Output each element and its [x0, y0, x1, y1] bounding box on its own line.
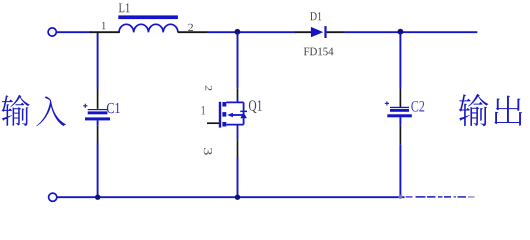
transistor Q1 body diode branch: [243, 102, 245, 124]
capacitor C2 positive plate: [390, 107, 409, 112]
diode D1 cathode pin lead: [327, 31, 344, 33]
node output junction dot: [398, 29, 404, 35]
capacitor C1 top pin lead: [97, 89, 99, 109]
capacitor C2 plus mark: [385, 101, 389, 105]
capacitor C1 label: [107, 103, 120, 113]
transistor Q1 body lead with arrow: [227, 113, 243, 118]
transistor Q1 pin number 3: [204, 148, 212, 155]
inductor L1 coil: [119, 24, 178, 32]
wire C1 branch bottom: [97, 143, 99, 197]
wire output node down: [399, 33, 401, 89]
wire bottom rail dashed faded segment: [406, 196, 475, 198]
transistor Q1 pin number 2: [205, 86, 212, 91]
wire drain node down: [237, 33, 239, 88]
capacitor C2 bottom stub: [399, 117, 401, 125]
node drain junction dot: [235, 29, 241, 35]
diode D1 label: [310, 12, 321, 20]
input terminal top-left: [48, 28, 56, 36]
inductor L1 core bar: [118, 15, 178, 19]
capacitor C1 bottom stub: [97, 120, 99, 125]
capacitor C1 plus mark: [83, 104, 87, 108]
capacitor C2 top pin lead: [399, 89, 401, 108]
inductor L1 label: [119, 3, 130, 12]
transistor Q1 label: [249, 100, 262, 113]
capacitor C1 bottom pin lead: [97, 126, 99, 143]
inductor L1 pin number 1: [102, 22, 106, 29]
node bottom C1 junction dot: [95, 195, 100, 200]
wire L1 pin2 to drain node: [207, 31, 295, 33]
wire source to bottom rail: [237, 158, 239, 197]
inductor L1 pin number 2: [188, 24, 193, 31]
node bottom C2 junction dot (faint): [398, 195, 402, 199]
transistor Q1 body diode: [240, 111, 247, 119]
transistor Q1 source lead: [226, 125, 243, 141]
inductor L1 pin 2 lead: [178, 31, 208, 33]
transistor Q1 drain lead: [226, 97, 243, 102]
diode D1 triangle: [311, 27, 323, 37]
capacitor C1 positive plate: [88, 109, 108, 114]
transistor Q1 channel segments: [222, 102, 226, 127]
transistor Q1 gate bar: [219, 102, 221, 128]
diode D1 part number FD154: [304, 48, 334, 56]
node bottom Q1 junction dot: [235, 195, 240, 200]
capacitor C2 label: [411, 101, 424, 112]
label 输入 (input): [1, 95, 65, 127]
capacitor C1 negative plate: [85, 117, 110, 120]
wire C1 branch top: [97, 33, 99, 89]
wire diode cathode to output node and right end: [343, 31, 477, 33]
transistor Q1 pin number 1: [201, 106, 205, 114]
transistor Q1 drain pin lead (pin 2): [237, 88, 239, 97]
label 输出 (output): [459, 94, 522, 126]
transistor Q1 gate pin lead (pin 1): [207, 122, 219, 124]
input terminal bottom-left: [49, 193, 57, 201]
wire top-left terminal to C1 node: [57, 31, 91, 33]
diode D1 cathode bar: [324, 26, 326, 38]
capacitor C2 bottom pin lead: [399, 125, 401, 144]
transistor Q1 source pin lead (pin 3): [237, 140, 239, 157]
inductor L1 pin 1 lead: [90, 31, 120, 33]
wire C2 branch bottom: [399, 144, 401, 196]
capacitor C2 negative plate: [387, 114, 412, 117]
wire bottom rail: [57, 196, 405, 198]
diode D1 anode pin lead: [295, 31, 312, 33]
